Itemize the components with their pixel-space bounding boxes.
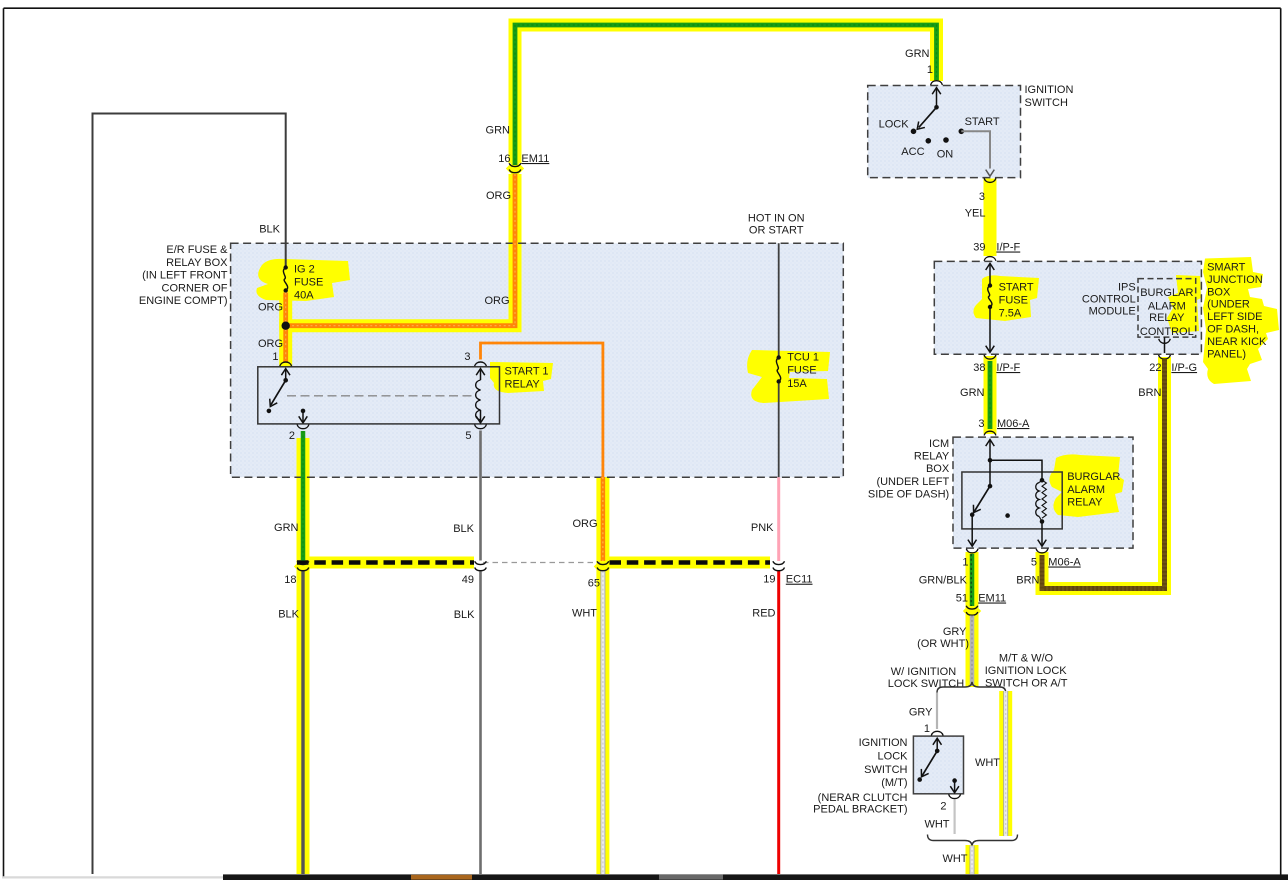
- svg-text:2: 2: [940, 801, 946, 813]
- svg-text:M06-A: M06-A: [1048, 557, 1081, 569]
- svg-text:RELAY: RELAY: [1067, 497, 1103, 509]
- svg-text:2: 2: [289, 430, 295, 442]
- svg-text:BRN: BRN: [1138, 387, 1161, 399]
- svg-text:GRY: GRY: [909, 707, 933, 719]
- svg-text:ORG: ORG: [486, 190, 511, 202]
- connector 22 I/P-G: [1159, 355, 1171, 359]
- highlight band: BLK wire below joint 18: [297, 561, 310, 874]
- svg-text:WHT: WHT: [975, 757, 1000, 769]
- highlight band: GRN wire SJB to ICM: [984, 356, 997, 434]
- wire WHT right branch: [1003, 691, 1008, 836]
- wire WHT lock switch pin 2: [953, 800, 955, 835]
- bottom bar GRY segment: [659, 875, 723, 880]
- svg-text:GRN: GRN: [274, 522, 299, 534]
- wire ORG relay pin3 riser: [481, 343, 603, 477]
- svg-text:M/T & W/O: M/T & W/O: [999, 653, 1054, 665]
- connector ignition switch pin 3: [984, 178, 996, 182]
- highlight blob: smart junction box label: [1203, 257, 1279, 384]
- svg-text:FUSE: FUSE: [999, 295, 1028, 307]
- svg-text:START: START: [999, 282, 1034, 294]
- svg-text:GRN: GRN: [960, 387, 985, 399]
- fuse IG 2 40A: [284, 265, 288, 269]
- relay contact arm: [281, 369, 290, 376]
- ICM relay coil with resistor: [1036, 483, 1039, 517]
- svg-text:(M/T): (M/T): [881, 777, 907, 789]
- svg-text:OF DASH,: OF DASH,: [1207, 324, 1259, 336]
- svg-text:RELAY: RELAY: [505, 379, 541, 391]
- ICM link to coil: [990, 460, 1042, 480]
- svg-text:PEDAL BRACKET): PEDAL BRACKET): [813, 804, 907, 816]
- connector lock switch pin 2: [949, 794, 961, 798]
- wire BLK relay pin5 through 49: [479, 431, 482, 561]
- wire PNK below E/R box: [777, 477, 780, 561]
- START 1 relay rect: [258, 367, 500, 424]
- svg-text:HOT IN ON: HOT IN ON: [748, 213, 805, 225]
- fuse START 7.5A: [988, 283, 992, 287]
- svg-text:E/R FUSE &: E/R FUSE &: [166, 244, 228, 256]
- ICM pin 1 connector: [966, 549, 978, 553]
- connector 39 I/P-F: [984, 257, 996, 261]
- svg-text:16: 16: [498, 153, 510, 165]
- connector lock switch pin 1: [931, 731, 943, 735]
- highlight band: ORG run EM11 to fuse/relay pin 1: [286, 174, 515, 367]
- svg-text:3: 3: [978, 418, 984, 430]
- junction node ORG: [282, 322, 290, 330]
- relay START 1 pin 1 connector: [280, 362, 292, 366]
- node START: [959, 129, 965, 135]
- svg-text:(OR WHT): (OR WHT): [917, 638, 969, 650]
- ICM pin 5 connector: [1036, 549, 1048, 553]
- burglar alarm relay control inner box: [1138, 279, 1196, 338]
- svg-text:51: 51: [956, 593, 968, 605]
- svg-text:JUNCTION: JUNCTION: [1207, 274, 1263, 286]
- highlight band: GRN relay pin 2 wire: [297, 438, 310, 561]
- svg-text:START: START: [965, 116, 1000, 128]
- svg-text:CONTROL: CONTROL: [1082, 294, 1136, 306]
- wire ORG highlighted below box: [601, 477, 606, 561]
- svg-text:(UNDER: (UNDER: [1207, 299, 1250, 311]
- svg-text:TCU 1: TCU 1: [787, 351, 819, 363]
- bottom continuation bar: [223, 874, 1288, 880]
- highlight band: BRN path ICM pin5 to SJB 22: [1042, 357, 1165, 589]
- burglar ctrl box lead: [1164, 337, 1166, 353]
- svg-text:38: 38: [973, 362, 985, 374]
- relay coil START 1: [476, 369, 485, 376]
- highlight band: YEL wire ignition sw to SJB: [984, 179, 997, 257]
- svg-text:WHT: WHT: [942, 853, 967, 865]
- ignition switch contact arm: [932, 88, 941, 95]
- smart junction box body: [934, 261, 1201, 354]
- svg-text:39: 39: [973, 242, 985, 254]
- wire WHT merged: [970, 846, 975, 875]
- highlight blob: START 1 RELAY label: [490, 362, 553, 393]
- svg-text:ON: ON: [937, 149, 954, 161]
- svg-text:CONTROL: CONTROL: [1140, 326, 1194, 338]
- burglar alarm relay rect: [962, 472, 1062, 529]
- ignition switch body: [868, 86, 1021, 178]
- svg-text:ALARM: ALARM: [1067, 484, 1105, 496]
- svg-text:3: 3: [979, 191, 985, 203]
- svg-text:PNK: PNK: [751, 522, 774, 534]
- connector 38 I/P-F: [984, 355, 996, 359]
- svg-text:65: 65: [588, 578, 600, 590]
- connector row highlighted dashes 18-49: [297, 560, 474, 565]
- ignition switch outline: [868, 86, 1021, 178]
- svg-text:EC11: EC11: [786, 574, 813, 586]
- svg-text:5: 5: [465, 430, 471, 442]
- svg-text:5: 5: [1031, 557, 1037, 569]
- SJB feed arrow: [986, 263, 995, 270]
- svg-text:BLK: BLK: [259, 224, 280, 236]
- E/R fuse & relay box outline: [231, 243, 844, 477]
- highlight blob: TCU 1 fuse label: [747, 350, 830, 403]
- wire GRN top run EM11 to ignition switch: [515, 25, 937, 165]
- svg-text:IGNITION LOCK: IGNITION LOCK: [985, 665, 1068, 677]
- highlight band: WHT merged bottom: [966, 845, 979, 874]
- svg-text:40A: 40A: [294, 290, 314, 302]
- relay pin 3 connector: [475, 362, 487, 366]
- bottom bar BRN segment: [411, 875, 472, 880]
- relay actuate dashed link: [287, 395, 474, 397]
- highlight band: ORG fuse to junction: [279, 294, 292, 330]
- connector 51 EM11: [966, 606, 978, 609]
- wire GRN/BLK ICM pin1 to EM11: [970, 554, 975, 606]
- svg-text:BOX: BOX: [926, 463, 950, 475]
- connector 16 EM11: [509, 163, 521, 166]
- connector 19 EC11: [773, 561, 785, 564]
- svg-text:(UNDER LEFT: (UNDER LEFT: [876, 476, 949, 488]
- wire RED below EC11: [777, 571, 780, 874]
- svg-text:GRN: GRN: [905, 48, 930, 60]
- lock switch contact arm: [933, 738, 942, 745]
- svg-text:15A: 15A: [787, 378, 807, 390]
- highlight band: connector row 65-19: [609, 557, 770, 569]
- svg-text:PANEL): PANEL): [1207, 348, 1246, 360]
- svg-text:BOX: BOX: [1207, 286, 1231, 298]
- svg-text:ORG: ORG: [572, 518, 597, 530]
- highlight band: WHT right branch: [999, 691, 1012, 836]
- svg-text:7.5A: 7.5A: [999, 308, 1022, 320]
- svg-text:SIDE OF DASH): SIDE OF DASH): [868, 489, 949, 501]
- highlight band: GRY wire below EM11: [966, 608, 979, 687]
- svg-text:ORG: ORG: [258, 338, 283, 350]
- wire WHT below 65: [600, 571, 605, 874]
- lock switch pin 2 contact: [952, 778, 957, 783]
- svg-text:START 1: START 1: [505, 366, 549, 378]
- wire GRY below EM11: [970, 616, 975, 687]
- relay pin 5 connector: [475, 425, 487, 429]
- svg-text:BRN: BRN: [1016, 575, 1039, 587]
- svg-text:I/P-F: I/P-F: [996, 242, 1020, 254]
- svg-text:49: 49: [462, 574, 474, 586]
- connector row thin dashed 49-65: [483, 562, 600, 564]
- svg-text:SMART: SMART: [1207, 262, 1246, 274]
- highlight blob: burglar alarm relay control: [1167, 275, 1201, 333]
- connector joint 49: [475, 561, 487, 564]
- svg-text:1: 1: [924, 723, 930, 735]
- brace merge bottom: [928, 835, 1018, 846]
- svg-text:RED: RED: [752, 608, 775, 620]
- svg-text:ACC: ACC: [901, 146, 924, 158]
- svg-text:ORG: ORG: [484, 295, 509, 307]
- svg-text:CORNER OF: CORNER OF: [162, 282, 228, 294]
- svg-text:MODULE: MODULE: [1089, 306, 1136, 318]
- node ACC: [926, 138, 932, 144]
- svg-text:FUSE: FUSE: [787, 365, 816, 377]
- ICM spare contact: [1005, 513, 1010, 518]
- highlight band: GRN top run + drops: [515, 25, 937, 163]
- highlight blob: burglar alarm relay (ICM) label: [1049, 454, 1124, 517]
- highlight band: WHT wire below joint 65: [596, 561, 609, 874]
- connector ignition switch pin 1: [931, 81, 943, 85]
- svg-text:M06-A: M06-A: [997, 418, 1030, 430]
- highlight band: GRN/BLK wire ICM pin1: [966, 552, 979, 608]
- wire ORG fuse to relay pin 1: [283, 293, 288, 363]
- svg-text:YEL: YEL: [965, 208, 986, 220]
- svg-text:IGNITION: IGNITION: [1025, 84, 1074, 96]
- svg-text:EM11: EM11: [521, 153, 549, 165]
- svg-text:BURGLAR: BURGLAR: [1140, 287, 1193, 299]
- fuse TCU 1 15A: [777, 355, 781, 359]
- svg-text:ORG: ORG: [258, 301, 283, 313]
- svg-text:IG 2: IG 2: [294, 264, 315, 276]
- svg-text:RELAY BOX: RELAY BOX: [166, 257, 228, 269]
- svg-text:GRN/BLK: GRN/BLK: [919, 575, 968, 587]
- svg-text:SWITCH: SWITCH: [864, 764, 907, 776]
- svg-text:22: 22: [1149, 362, 1161, 374]
- svg-text:GRY: GRY: [943, 626, 967, 638]
- ICM relay box body: [953, 437, 1133, 548]
- svg-text:EM11: EM11: [978, 593, 1006, 605]
- wire feed TCU 1 fuse: [778, 243, 780, 356]
- svg-text:BLK: BLK: [454, 609, 475, 621]
- svg-text:FUSE: FUSE: [294, 277, 323, 289]
- connector joint 65: [597, 561, 609, 564]
- wire BLK loop from E/R box up-left to off-page bottom: [93, 114, 286, 875]
- svg-text:IGNITION: IGNITION: [859, 737, 908, 749]
- svg-text:BLK: BLK: [278, 609, 299, 621]
- svg-text:1: 1: [962, 557, 968, 569]
- svg-text:I/P-F: I/P-F: [996, 362, 1020, 374]
- svg-text:LOCK SWITCH: LOCK SWITCH: [888, 678, 964, 690]
- relay pin 2 contact: [301, 409, 306, 414]
- svg-text:W/ IGNITION: W/ IGNITION: [891, 666, 956, 678]
- node LOCK: [911, 129, 917, 135]
- wire GRY left branch: [936, 693, 938, 730]
- ICM relay box outline: [953, 437, 1133, 548]
- svg-text:SWITCH: SWITCH: [1025, 97, 1068, 109]
- svg-text:1: 1: [927, 64, 933, 76]
- ignition lock switch body: [913, 736, 963, 794]
- svg-text:BURGLAR: BURGLAR: [1067, 471, 1120, 483]
- svg-text:18: 18: [284, 574, 296, 586]
- connector 3 M06-A: [984, 431, 996, 435]
- svg-text:(IN LEFT FRONT: (IN LEFT FRONT: [142, 270, 228, 282]
- svg-text:NEAR KICK: NEAR KICK: [1207, 336, 1267, 348]
- E/R fuse & relay box body: [231, 243, 844, 477]
- wire BLK below 18: [301, 571, 304, 874]
- ignition lock switch outline: [913, 736, 963, 794]
- connector row highlighted dashes 65-19: [610, 560, 771, 565]
- brace split top: [937, 682, 1006, 693]
- svg-text:WHT: WHT: [924, 819, 949, 831]
- svg-text:WHT: WHT: [572, 608, 597, 620]
- relay pin 2 connector: [297, 425, 309, 429]
- highlight band: ORG wire relay pin3 below box: [596, 477, 609, 561]
- svg-text:ENGINE COMPT): ENGINE COMPT): [139, 295, 228, 307]
- wire GRN SJB to ICM: [988, 361, 993, 429]
- svg-text:LEFT SIDE: LEFT SIDE: [1207, 311, 1262, 323]
- svg-text:ALARM: ALARM: [1148, 301, 1186, 313]
- svg-text:OR START: OR START: [749, 225, 804, 237]
- svg-text:LOCK: LOCK: [879, 119, 910, 131]
- smart junction box outline: [934, 261, 1201, 354]
- svg-text:BLK: BLK: [453, 523, 474, 535]
- svg-text:IPS: IPS: [1118, 282, 1136, 294]
- svg-text:(NERAR CLUTCH: (NERAR CLUTCH: [818, 792, 908, 804]
- wire BRN SJB 22 to ICM pin 5: [1042, 359, 1165, 589]
- node ON: [943, 137, 949, 143]
- svg-text:ICM: ICM: [929, 438, 949, 450]
- svg-text:1: 1: [272, 351, 278, 363]
- svg-text:LOCK: LOCK: [878, 751, 909, 763]
- highlight blob: IG 2 fuse label: [256, 259, 350, 301]
- svg-text:I/P-G: I/P-G: [1171, 362, 1197, 374]
- wire START contact to pin 3: [961, 131, 990, 168]
- svg-text:RELAY: RELAY: [914, 451, 950, 463]
- wire ORG EM11 to E/R box junction: [288, 174, 515, 326]
- highlight blob: START FUSE label: [973, 275, 1039, 321]
- svg-text:3: 3: [464, 351, 470, 363]
- ICM relay contact arm: [989, 460, 991, 486]
- svg-text:GRN: GRN: [486, 124, 511, 136]
- highlight band: connector row 18-49: [297, 557, 475, 569]
- connector joint 18: [297, 561, 309, 564]
- wire GRN relay pin2 to 18: [301, 431, 306, 561]
- svg-text:19: 19: [763, 574, 775, 586]
- ICM feed arrow: [986, 440, 995, 447]
- svg-text:RELAY: RELAY: [1149, 312, 1185, 324]
